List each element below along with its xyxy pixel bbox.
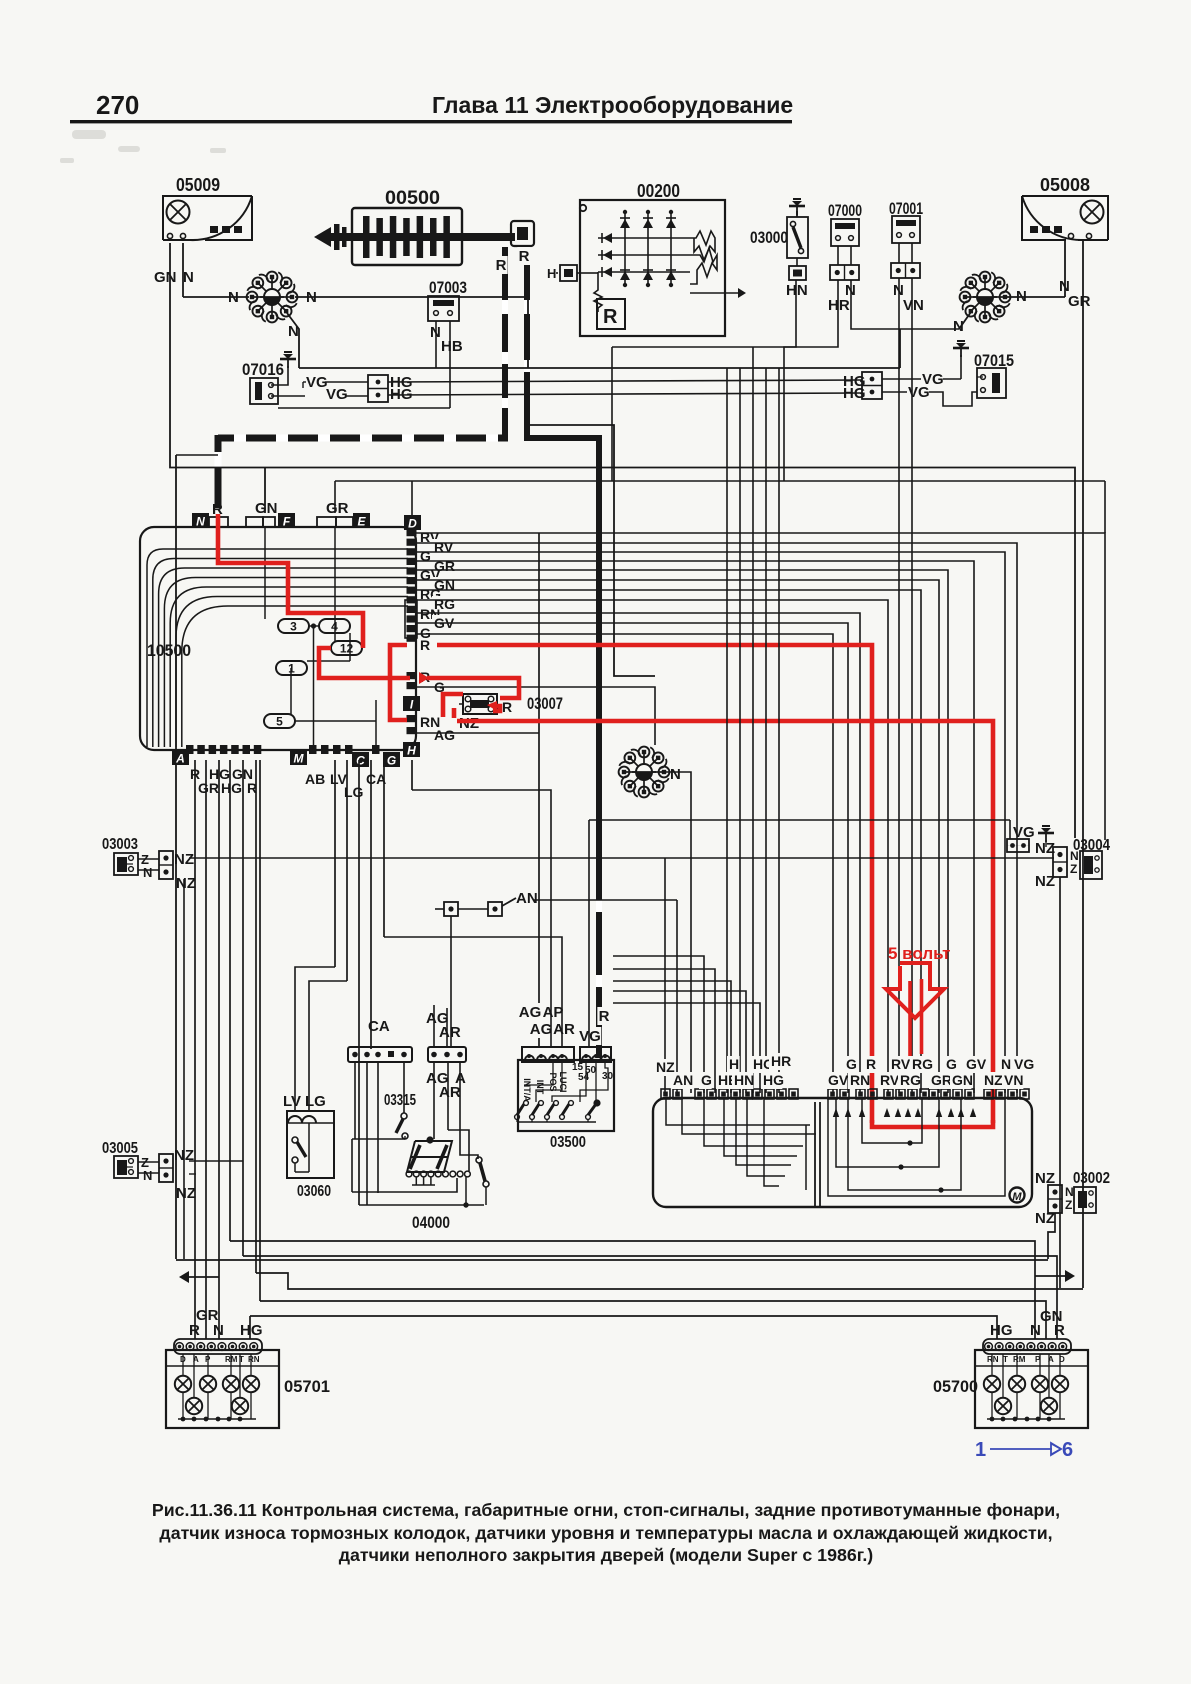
- svg-text:M: M: [1012, 1191, 1022, 1203]
- svg-text:D: D: [408, 517, 417, 531]
- svg-text:N: N: [1001, 1056, 1011, 1072]
- svg-text:H: H: [407, 744, 416, 758]
- svg-text:05009: 05009: [176, 175, 220, 195]
- svg-text:G: G: [846, 1056, 857, 1072]
- rear lamp cluster 05700: [933, 1339, 1088, 1428]
- red wire hook at R2: [419, 672, 519, 711]
- multi connector star middle: [619, 747, 670, 798]
- wire horizontal y368: [299, 329, 900, 368]
- svg-text:AG: AG: [434, 727, 455, 743]
- svg-text:CA: CA: [368, 1018, 390, 1035]
- left bundle verticals: [195, 760, 256, 1339]
- wire 03004 drop: [1046, 840, 1060, 1288]
- svg-text:VN: VN: [903, 297, 924, 314]
- svg-text:HG: HG: [990, 1322, 1013, 1339]
- svg-text:A: A: [175, 752, 185, 766]
- red wire R to instrument cluster (line 1): [437, 645, 872, 1123]
- svg-text:GR: GR: [1068, 293, 1091, 310]
- rear lamp cluster 05701: [166, 1339, 330, 1428]
- svg-text:M: M: [294, 752, 305, 766]
- svg-text:GN: GN: [952, 1072, 973, 1088]
- svg-text:N: N: [143, 1168, 152, 1183]
- thick dashed bus: [218, 435, 508, 442]
- svg-text:T: T: [1003, 1355, 1008, 1364]
- thick wire R right: [524, 247, 602, 1058]
- wire star2 bottom N: [959, 312, 971, 329]
- connectors AN: [435, 890, 538, 916]
- fuse pack 00500: [314, 188, 515, 265]
- svg-text:1: 1: [975, 1439, 986, 1461]
- svg-text:HG: HG: [763, 1072, 784, 1088]
- svg-text:C: C: [356, 754, 365, 768]
- wire AN to cluster: [533, 900, 677, 1093]
- sensor 03003: [102, 836, 196, 892]
- labels N around left star: [228, 289, 317, 340]
- wire LV feed: [295, 967, 335, 1111]
- svg-text:AR: AR: [439, 1084, 461, 1101]
- lamp unit 05009: [163, 175, 252, 240]
- svg-text:NZ: NZ: [459, 715, 479, 732]
- svg-text:RV: RV: [891, 1056, 911, 1072]
- labels above instrument cluster: [654, 1053, 1034, 1089]
- wire GR pin drop: [334, 481, 336, 513]
- svg-text:R: R: [599, 1008, 610, 1025]
- svg-text:LV: LV: [283, 1093, 301, 1110]
- red wire NZ to cluster (line 2): [457, 721, 993, 1123]
- svg-text:03005: 03005: [102, 1140, 138, 1157]
- wire NZ drop 03005: [189, 1173, 196, 1175]
- svg-text:N: N: [196, 515, 205, 529]
- svg-text:07000: 07000: [828, 201, 862, 220]
- lamp unit 05008: [1022, 175, 1108, 240]
- connector 07003: [428, 278, 467, 321]
- bottom horizontal y1288: [256, 1273, 1083, 1289]
- wire N from 07000: [851, 280, 959, 329]
- svg-text:R: R: [496, 257, 507, 274]
- labels AG A AR under bar: [426, 1070, 466, 1101]
- svg-text:AG: AG: [519, 1004, 542, 1021]
- svg-text:GR: GR: [931, 1072, 952, 1088]
- multi connector star left: [247, 272, 298, 323]
- svg-text:H: H: [729, 1056, 739, 1072]
- wires AG AR drops: [434, 1005, 478, 1159]
- svg-text:00200: 00200: [637, 181, 680, 201]
- svg-text:07003: 07003: [429, 278, 467, 297]
- svg-text:Рис.11.36.11 Контрольная сист: Рис.11.36.11 Контрольная система, габари…: [152, 1500, 1060, 1520]
- svg-text:R: R: [189, 1322, 200, 1339]
- blue annotation 1 to 6: [975, 1439, 1073, 1461]
- red wire from R pin via ovals: [218, 514, 363, 648]
- wires star middle to contacts: [666, 347, 779, 1093]
- svg-text:H: H: [547, 266, 556, 281]
- svg-text:NZ: NZ: [174, 851, 194, 868]
- wire NZ drop 03003: [183, 879, 185, 1259]
- bottom horizontal y1256: [243, 1256, 1057, 1339]
- svg-text:00500: 00500: [385, 188, 440, 209]
- svg-text:N: N: [213, 1322, 224, 1339]
- wire 07001 right long: [911, 278, 913, 1093]
- right page arrow: [1035, 1270, 1075, 1339]
- svg-text:N: N: [183, 269, 194, 286]
- svg-text:G: G: [946, 1056, 957, 1072]
- svg-text:AR: AR: [553, 1021, 575, 1038]
- wires into 05701: [194, 1339, 196, 1350]
- wire HN from 03000: [612, 280, 796, 481]
- svg-text:AN: AN: [516, 890, 538, 907]
- wire HR from 07000: [784, 280, 838, 481]
- label GN N under 05009: [154, 269, 194, 286]
- svg-text:04000: 04000: [412, 1213, 450, 1232]
- ground at 07016: [271, 352, 296, 385]
- svg-text:AP: AP: [543, 1004, 564, 1021]
- labels above 05701: [189, 1307, 263, 1339]
- scan smudges: [60, 130, 226, 163]
- labels N GR at 05008: [1057, 277, 1091, 310]
- switch 03315: [384, 1092, 416, 1139]
- svg-text:HN: HN: [786, 282, 808, 299]
- svg-text:NZ: NZ: [176, 1185, 196, 1202]
- connector block 10500: [140, 500, 421, 768]
- alternator block 00200: [580, 181, 746, 336]
- label HN: [786, 282, 808, 299]
- fuse 07015: [974, 351, 1014, 398]
- instrument cluster block: [653, 1089, 1032, 1207]
- switch unit 03500: [515, 1047, 614, 1151]
- wire AG y736: [417, 732, 539, 734]
- wire NZ from 03003: [189, 858, 1054, 1093]
- svg-text:12: 12: [340, 642, 354, 656]
- svg-text:INT/A: INT/A: [522, 1078, 532, 1102]
- switch assembly 04000: [352, 1136, 489, 1232]
- svg-text:AG: AG: [530, 1021, 553, 1038]
- svg-text:GR: GR: [326, 500, 349, 517]
- svg-text:F: F: [283, 515, 291, 529]
- connector bar AG-AR: [426, 1010, 466, 1062]
- svg-text:NZ: NZ: [176, 875, 196, 892]
- wires into 03500: [384, 790, 589, 1047]
- wire long horizontal y481: [335, 481, 1105, 533]
- wire VG horizontal y820: [589, 820, 1010, 839]
- svg-text:R: R: [866, 1056, 876, 1072]
- bottom horizontal y1316: [250, 1316, 997, 1339]
- svg-text:VG: VG: [579, 1028, 601, 1045]
- figure caption: [152, 1500, 1060, 1565]
- svg-text:LG: LG: [305, 1093, 326, 1110]
- labels N HR: [828, 282, 856, 314]
- labels right of 10500: [420, 529, 455, 743]
- svg-text:R: R: [420, 637, 430, 653]
- svg-text:GV: GV: [828, 1072, 849, 1088]
- svg-text:AR: AR: [439, 1024, 461, 1041]
- svg-text:GN: GN: [154, 269, 177, 286]
- thick wire R left: [502, 247, 508, 441]
- wire NZ from 03005: [173, 1151, 243, 1161]
- svg-text:G: G: [387, 754, 396, 768]
- wire left edge long vertical: [176, 455, 218, 1259]
- svg-text:03315: 03315: [384, 1092, 416, 1109]
- svg-text:03060: 03060: [297, 1183, 331, 1200]
- svg-text:5 вольт: 5 вольт: [888, 944, 950, 963]
- svg-text:AN: AN: [673, 1072, 693, 1088]
- labels under 10500 block: [190, 766, 386, 800]
- label R at 03007: [502, 699, 512, 715]
- alternator input connector H: [547, 265, 585, 281]
- svg-text:03003: 03003: [102, 836, 138, 853]
- diode block 03007: [459, 694, 497, 714]
- svg-text:R: R: [603, 306, 618, 328]
- svg-text:VG: VG: [326, 386, 348, 403]
- wire star2 to 05008: [1007, 241, 1065, 297]
- svg-text:RN: RN: [987, 1355, 999, 1364]
- svg-text:GV: GV: [966, 1056, 987, 1072]
- svg-text:3: 3: [290, 620, 297, 634]
- red arrow annotation: [886, 963, 944, 1018]
- svg-text:Глава 11 Электрооборудование: Глава 11 Электрооборудование: [432, 92, 793, 118]
- wire CA drops: [355, 1062, 404, 1205]
- svg-text:03000: 03000: [750, 228, 788, 247]
- svg-text:HG: HG: [240, 1322, 263, 1339]
- wire AN box drop: [448, 916, 469, 1171]
- svg-text:RN: RN: [850, 1072, 870, 1088]
- red wire 03007 left hook: [443, 694, 463, 718]
- relay 07000: [828, 201, 862, 280]
- labels N around right star: [951, 287, 1027, 335]
- svg-text:03002: 03002: [1073, 1170, 1110, 1187]
- svg-text:05008: 05008: [1040, 175, 1090, 195]
- labels above 05700: [990, 1308, 1065, 1339]
- page header: [70, 90, 793, 123]
- labels above 03500: [519, 1003, 611, 1045]
- svg-text:датчики неполного закрытия две: датчики неполного закрытия дверей (модел…: [339, 1545, 874, 1565]
- switch 03060: [283, 1093, 334, 1200]
- left page arrow: [179, 1271, 219, 1283]
- svg-text:RN: RN: [248, 1355, 260, 1364]
- wire star right run: [295, 297, 528, 368]
- wire star bottom N: [287, 313, 299, 368]
- red wire oval12 to R contact: [319, 648, 410, 678]
- ground at 07015: [953, 341, 969, 379]
- thin wire parallel to thick elbow: [525, 425, 655, 676]
- svg-text:Z: Z: [1065, 1198, 1072, 1212]
- svg-text:NZ: NZ: [1035, 840, 1055, 857]
- svg-text:N: N: [1065, 1185, 1074, 1199]
- svg-text:AB: AB: [305, 771, 325, 787]
- svg-text:NZ: NZ: [984, 1072, 1003, 1088]
- wire 07003 HB: [278, 321, 450, 408]
- wires into cluster left contacts: [613, 956, 760, 1093]
- connector square right of 00500: [511, 221, 534, 246]
- fuse 07016: [242, 360, 284, 404]
- wire 07003 N: [435, 321, 437, 368]
- svg-text:VN: VN: [1004, 1072, 1023, 1088]
- svg-text:R: R: [1054, 1322, 1065, 1339]
- labels R R on thick wires: [494, 247, 530, 274]
- svg-text:05700: 05700: [933, 1377, 978, 1396]
- svg-text:HN: HN: [734, 1072, 754, 1088]
- svg-text:HR: HR: [828, 297, 850, 314]
- svg-text:6: 6: [1062, 1439, 1073, 1461]
- svg-text:07016: 07016: [242, 360, 284, 379]
- svg-text:N: N: [953, 318, 964, 335]
- svg-text:GR: GR: [198, 780, 219, 796]
- multi connector star right: [960, 272, 1011, 323]
- svg-text:HG: HG: [221, 780, 242, 796]
- svg-text:E: E: [357, 515, 366, 529]
- svg-text:N: N: [670, 766, 681, 783]
- bottom horizontal y1241: [230, 1241, 1035, 1339]
- red wire U inside cluster: [872, 1120, 993, 1127]
- red loop R to RN contact: [390, 645, 407, 720]
- wire HG pair long left-right: [388, 380, 862, 395]
- svg-text:HR: HR: [771, 1053, 791, 1069]
- svg-text:Z: Z: [1070, 862, 1077, 876]
- wire LG feed: [309, 981, 347, 1111]
- svg-text:03500: 03500: [550, 1134, 586, 1151]
- svg-text:HB: HB: [441, 338, 463, 355]
- junction VG-HG left: [271, 374, 413, 403]
- sensor 03005: [102, 1140, 196, 1202]
- wire AG long vertical: [538, 533, 540, 1047]
- bottom horizontal y1259: [176, 1259, 1048, 1261]
- svg-text:05701: 05701: [284, 1377, 330, 1396]
- fan wires from 10500 to instrument cluster: [416, 533, 1105, 1093]
- labels N HB: [430, 324, 463, 355]
- svg-text:RV: RV: [880, 1072, 900, 1088]
- relay 07001: [889, 199, 923, 278]
- svg-text:10500: 10500: [147, 641, 191, 660]
- junction HG-VG right: [843, 371, 977, 406]
- svg-text:N: N: [1070, 849, 1079, 863]
- svg-text:RG: RG: [912, 1056, 933, 1072]
- wire 07001 left long: [898, 278, 900, 1093]
- svg-text:датчик износа тормозных колодо: датчик износа тормозных колодок, датчики…: [159, 1523, 1052, 1543]
- wire GR long right: [1082, 241, 1084, 1288]
- labels N VN: [893, 282, 924, 314]
- red annotation 5 volt: [888, 944, 950, 963]
- svg-text:N: N: [143, 865, 152, 880]
- wire GN from 05009: [170, 243, 1075, 838]
- switch 03000: [750, 199, 808, 280]
- connector bar CA: [348, 1018, 412, 1062]
- wire 03002 drop: [1048, 1213, 1055, 1259]
- svg-text:54: 54: [578, 1072, 590, 1083]
- wire 03315 bottom: [352, 1136, 405, 1192]
- wire N from 05009 to star: [183, 243, 249, 297]
- svg-text:NZ: NZ: [1035, 873, 1055, 890]
- svg-text:G: G: [701, 1072, 712, 1088]
- svg-text:03007: 03007: [527, 694, 563, 713]
- sensor 03002: [1035, 1170, 1110, 1227]
- svg-text:NZ: NZ: [1035, 1210, 1055, 1227]
- svg-text:R: R: [519, 248, 530, 265]
- svg-text:RM: RM: [1013, 1355, 1026, 1364]
- svg-text:RG: RG: [900, 1072, 921, 1088]
- svg-text:GN: GN: [255, 500, 278, 517]
- svg-text:5: 5: [276, 715, 283, 729]
- label 03007: [527, 694, 563, 713]
- thick wire bus to 10500 R pin: [215, 435, 222, 508]
- label N at middle star: [670, 766, 681, 783]
- mid verticals from 10500 bottom: [260, 760, 412, 1301]
- bottom horizontal y1301: [260, 1301, 1046, 1339]
- svg-text:270: 270: [96, 90, 139, 120]
- svg-text:VG: VG: [1014, 1056, 1034, 1072]
- svg-text:VG: VG: [306, 374, 328, 391]
- wire D feed: [411, 481, 413, 518]
- sensor 03004: [1007, 824, 1110, 890]
- wire G y687: [416, 687, 655, 745]
- red arrow legs: [910, 979, 922, 1073]
- label NZ at 03007: [459, 715, 479, 732]
- svg-text:R: R: [502, 699, 512, 715]
